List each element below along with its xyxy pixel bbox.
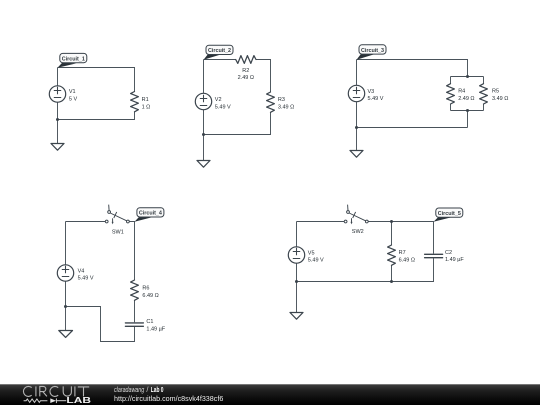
svg-text:3.49 Ω: 3.49 Ω bbox=[492, 96, 508, 102]
svg-text:V3: V3 bbox=[368, 89, 375, 95]
svg-text:1.49 µF: 1.49 µF bbox=[445, 257, 464, 263]
svg-text:R2: R2 bbox=[242, 68, 249, 74]
svg-text:C1: C1 bbox=[146, 319, 153, 325]
svg-text:V2: V2 bbox=[215, 97, 222, 103]
svg-text:SW2: SW2 bbox=[352, 229, 364, 235]
svg-text:5.49 V: 5.49 V bbox=[215, 104, 231, 110]
svg-text:5 V: 5 V bbox=[69, 96, 78, 102]
svg-text:Circuit_2: Circuit_2 bbox=[208, 48, 231, 54]
svg-text:6.49 Ω: 6.49 Ω bbox=[142, 293, 158, 299]
svg-text:5.49 V: 5.49 V bbox=[368, 96, 384, 102]
svg-text:Circuit_5: Circuit_5 bbox=[438, 211, 461, 217]
svg-text:R3: R3 bbox=[278, 97, 285, 103]
svg-text:2.49 Ω: 2.49 Ω bbox=[238, 75, 254, 81]
svg-text:V1: V1 bbox=[69, 89, 76, 95]
svg-text:2.49 Ω: 2.49 Ω bbox=[458, 96, 474, 102]
svg-text:1.49 µF: 1.49 µF bbox=[146, 326, 165, 332]
svg-text:6.49 Ω: 6.49 Ω bbox=[399, 257, 415, 263]
svg-text:5.49 V: 5.49 V bbox=[308, 258, 324, 264]
svg-text:C2: C2 bbox=[445, 250, 452, 256]
svg-text:3.49 Ω: 3.49 Ω bbox=[278, 104, 294, 110]
svg-text:Circuit_1: Circuit_1 bbox=[62, 56, 85, 62]
svg-text:Circuit_4: Circuit_4 bbox=[139, 211, 162, 217]
svg-text:R4: R4 bbox=[458, 89, 465, 95]
svg-text:http://circuitlab.com/c8svk4f3: http://circuitlab.com/c8svk4f338cf6 bbox=[114, 394, 223, 403]
svg-text:Circuit_3: Circuit_3 bbox=[361, 48, 384, 54]
svg-text:5.49 V: 5.49 V bbox=[78, 276, 94, 282]
svg-text:SW1: SW1 bbox=[112, 229, 124, 235]
svg-text:V4: V4 bbox=[78, 268, 85, 274]
svg-text:LAB: LAB bbox=[66, 395, 91, 405]
svg-text:claradawang: claradawang bbox=[114, 385, 145, 394]
svg-text:R6: R6 bbox=[142, 286, 149, 292]
svg-text:Lab 0: Lab 0 bbox=[151, 385, 164, 394]
svg-text:R5: R5 bbox=[492, 89, 499, 95]
svg-text:R1: R1 bbox=[142, 97, 149, 103]
svg-text:1 Ω: 1 Ω bbox=[142, 104, 151, 110]
svg-text:R7: R7 bbox=[399, 250, 406, 256]
svg-text:V5: V5 bbox=[308, 250, 315, 256]
